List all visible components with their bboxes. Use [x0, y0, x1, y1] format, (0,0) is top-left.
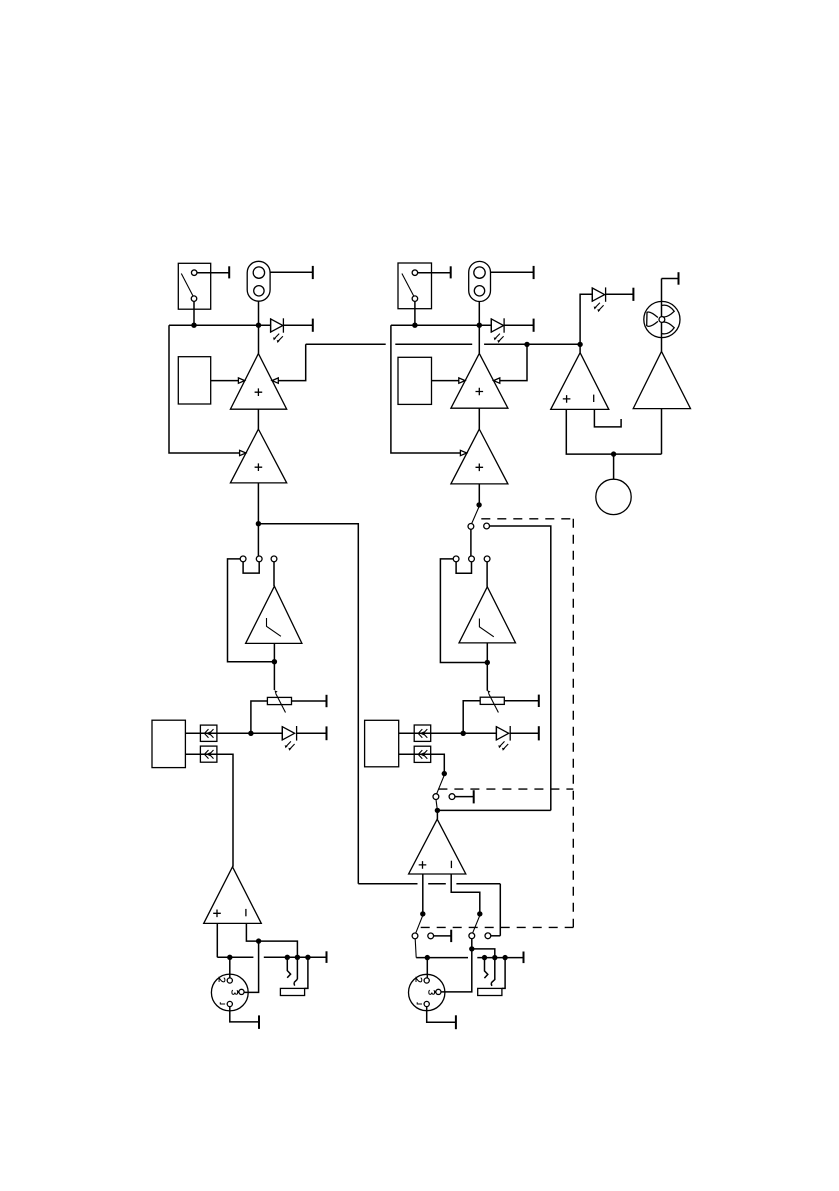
op-amp U6 fader: [459, 587, 516, 643]
wire SW4 right contact: [491, 935, 501, 937]
switch SW4: [469, 916, 491, 938]
wire B1 to U1: [211, 380, 239, 382]
jack contact hook1 ch2: [484, 958, 487, 979]
jack contact hook1 ch1: [287, 957, 290, 978]
net bus1: [169, 323, 271, 328]
mech link dash bottom: [421, 926, 574, 928]
op-amp U8 fan driver: [633, 351, 690, 454]
wire SW3 right contact to terminal: [434, 930, 452, 942]
wire node to LED D5: [580, 294, 592, 344]
op-amp U4 output stage ch2: [409, 819, 466, 874]
box B1: [178, 357, 210, 404]
wire U42 out / node A2: [476, 484, 481, 508]
wire X1 pin1 to terminal: [230, 1007, 259, 1029]
fader F2 inputs: [453, 556, 490, 573]
wire K2 to U3: [217, 754, 233, 867]
net monitor bus: [306, 342, 583, 347]
jack contact hook2 ch1: [294, 979, 297, 985]
wire U41 out: [478, 408, 480, 429]
wire B4 outputs: [399, 733, 431, 754]
arrowhead into U42: [460, 450, 466, 455]
box B3 meter driver: [152, 720, 185, 767]
wire feedback left bracket ch2: [391, 325, 461, 453]
op-amp U3 output stage ch1: [204, 867, 262, 924]
switch SW2: [433, 776, 455, 800]
wire X2 pin1 to terminal: [427, 1007, 456, 1030]
wire dub line ch1 to SW4: [258, 524, 500, 936]
net rail1: [217, 951, 326, 963]
op-amp U5 fader: [246, 586, 302, 643]
wire P2 right to terminal: [504, 695, 539, 707]
wire K1 to LED D2: [217, 731, 282, 736]
wire U1 out: [257, 409, 259, 429]
arrowhead into U2: [240, 450, 246, 455]
wire D3 to terminal: [504, 319, 533, 332]
op-amp U42: [451, 429, 508, 484]
wire P1 right to terminal: [292, 695, 327, 707]
arrowhead into U1 right: [272, 378, 278, 383]
LED D3: [491, 318, 504, 343]
net rail2: [416, 952, 523, 964]
LED D4: [496, 726, 510, 751]
wire feedback left bracket ch1: [169, 325, 240, 453]
wire F1 feedback: [228, 559, 275, 662]
wire rail2 to pin2: [426, 958, 428, 978]
LED D1: [271, 318, 284, 343]
LED D2: [282, 726, 296, 751]
wire J1 to terminal: [270, 266, 313, 279]
box B2: [398, 357, 432, 404]
wire U2 out / node A1: [256, 483, 261, 556]
wire K4 to SW2: [431, 754, 447, 776]
wire F1 c3 to amp: [273, 562, 275, 586]
connector J1: [247, 261, 270, 301]
wire S2 to terminal: [418, 266, 451, 278]
wire J3 down: [478, 302, 480, 354]
jack sleeve J2 ch1: [280, 957, 308, 995]
wire SW1 right contact to bottom node: [490, 526, 551, 810]
XLR X2: [409, 974, 445, 1010]
jack contact hook2 ch2: [491, 958, 495, 986]
wire B3 outputs: [185, 733, 217, 754]
potentiometer P1: [267, 690, 291, 712]
opto K4: [414, 746, 431, 762]
wire P2 left: [463, 701, 480, 734]
arrowhead into U41 left: [459, 378, 465, 383]
wire monitor into U41 right: [500, 344, 527, 380]
wire SW2 left contact to node B: [435, 800, 551, 820]
wire U7 minus stub: [594, 409, 621, 427]
wire U4 minus input: [451, 874, 482, 917]
wire J3 to terminal: [491, 266, 534, 279]
switch S2: [398, 263, 432, 309]
wire S1 to terminal: [197, 266, 229, 278]
wire U5 out node: [272, 643, 277, 690]
wire F2 feedback: [440, 559, 487, 663]
wire D1 to terminal: [283, 319, 312, 332]
fan M1: [644, 279, 680, 352]
wire U4 plus input: [420, 874, 425, 917]
wire SW4 left contact to pin3: [441, 939, 495, 992]
wire K3 to LED D4: [431, 731, 497, 736]
wire SW1 left contact to fader: [470, 529, 472, 556]
switch SW3: [412, 916, 434, 939]
net bus2: [391, 323, 491, 328]
fader F1 inputs: [240, 556, 277, 573]
wire S2 down: [414, 301, 416, 325]
wire SW2 right contact to terminal: [455, 790, 474, 803]
arrowhead into U1 left: [238, 378, 244, 383]
wire U7 plus input net: [566, 409, 661, 456]
opto K2: [200, 746, 217, 762]
wire D5 to terminal: [606, 288, 634, 301]
op-amp U41: [451, 353, 508, 408]
LED D5: [592, 287, 605, 312]
box B4 meter driver: [365, 720, 399, 767]
wire D4 to terminal: [510, 726, 539, 740]
wire monitor into U1 right: [278, 344, 305, 380]
wire U3 minus input: [246, 923, 297, 979]
wire fan supply to terminal: [662, 272, 679, 285]
opto K3: [414, 725, 431, 741]
wire pin3 branch ch1: [244, 941, 258, 992]
arrowhead into U41 right: [494, 378, 500, 383]
mech link dash vertical: [572, 519, 574, 928]
wire B2 to U41: [432, 380, 459, 382]
wire U6 out node: [485, 643, 490, 691]
node N1 sense: [596, 454, 631, 514]
potentiometer P2: [480, 690, 504, 712]
wire S1 down: [193, 301, 195, 325]
XLR X1: [211, 974, 248, 1011]
wire P1 left: [251, 701, 268, 733]
switch SW1 tape-monitor: [468, 507, 490, 529]
wire U3 plus input: [216, 923, 218, 957]
wire J1 down: [258, 301, 260, 353]
mech link dash top: [481, 518, 573, 520]
mech link dash mid: [438, 788, 573, 790]
wire SW3 left contact to rail: [415, 939, 416, 958]
op-amp U1: [230, 354, 286, 410]
connector J3: [469, 261, 491, 301]
wire rail to pin2: [229, 957, 231, 978]
op-amp U2: [230, 429, 286, 483]
wire F2 c3 to amp: [486, 562, 488, 587]
op-amp U7 power amp: [551, 344, 609, 409]
wire D2 to terminal: [297, 726, 327, 740]
jack sleeve J4 ch2: [478, 958, 505, 996]
switch S1: [178, 263, 210, 309]
opto K1: [200, 725, 217, 741]
